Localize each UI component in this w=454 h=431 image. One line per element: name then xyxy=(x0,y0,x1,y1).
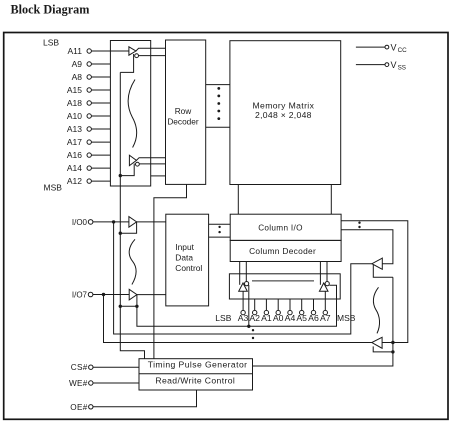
svg-text:A0: A0 xyxy=(273,313,284,323)
column address buffer block xyxy=(229,274,340,299)
svg-text:CS#: CS# xyxy=(71,363,88,372)
svg-text:Data: Data xyxy=(175,252,193,262)
wire A13 stub xyxy=(91,128,110,130)
wire A3 buffer bubble branch xyxy=(248,285,250,326)
svg-text:I/O7: I/O7 xyxy=(72,290,88,299)
wire A12 stub xyxy=(91,180,110,182)
terminal A17 xyxy=(67,137,92,147)
svg-text:A5: A5 xyxy=(296,313,307,323)
wire U4 control tap xyxy=(120,295,137,307)
column decoder block xyxy=(230,240,341,261)
svg-text:Memory Matrix: Memory Matrix xyxy=(253,101,315,111)
wire A11 to buffer xyxy=(91,50,129,52)
wire WE# input xyxy=(93,382,139,384)
divider timing/readwrite xyxy=(139,373,253,375)
wire U4 output to input data control xyxy=(137,294,166,296)
wire U2 complement output xyxy=(139,163,165,165)
junction control rail / U2 tap xyxy=(119,174,122,177)
terminal A6 xyxy=(311,299,315,315)
svg-text:A1: A1 xyxy=(261,313,272,323)
wire output enable rail xyxy=(253,277,393,366)
inverter bubble U8 xyxy=(325,282,329,286)
junction control rail / U3 tap xyxy=(119,232,122,235)
svg-text:Row: Row xyxy=(175,106,193,116)
wire A17 stub xyxy=(91,141,110,143)
terminal A13 xyxy=(67,124,92,134)
svg-text:Column I/O: Column I/O xyxy=(258,224,303,233)
wire U5 enable tap xyxy=(373,265,393,277)
svg-text:A2: A2 xyxy=(249,313,260,323)
terminal A4 xyxy=(288,299,292,315)
wire write data line to column address buffers xyxy=(137,285,337,326)
junction control rail / U4 tap xyxy=(119,305,122,308)
wire column I/O to U5 input xyxy=(341,230,393,264)
wire I/O0 input xyxy=(93,221,129,223)
buffer U7 (A3 column address buffer) xyxy=(239,283,248,291)
svg-text:Control: Control xyxy=(175,263,202,273)
terminal I/O7 xyxy=(72,290,93,299)
svg-text:Input: Input xyxy=(175,242,194,252)
terminal A3 xyxy=(241,291,245,315)
svg-text:A13: A13 xyxy=(67,124,82,134)
wire A16 stub xyxy=(91,154,110,156)
power pin VSS xyxy=(356,60,406,72)
terminal A8 xyxy=(72,72,92,82)
continuation dots (IDC bus) xyxy=(218,226,220,234)
inverter bubble U2 xyxy=(136,162,140,166)
wire U2 true output xyxy=(136,158,165,161)
svg-text:A18: A18 xyxy=(67,98,82,108)
svg-text:A17: A17 xyxy=(67,137,82,147)
terminal A0 xyxy=(276,299,280,315)
address buffer block xyxy=(110,41,150,187)
terminal A12 xyxy=(67,176,92,186)
wire U7 true output to column decoder xyxy=(239,262,241,285)
wire A10 stub xyxy=(91,115,110,117)
terminal A16 xyxy=(67,150,92,160)
label Row Decoder xyxy=(167,106,199,126)
svg-text:MSB: MSB xyxy=(44,183,63,193)
wire buffer control rail to timing pulse generator xyxy=(120,72,144,358)
wire U2 control tap xyxy=(120,164,134,176)
wire A8 stub xyxy=(91,76,110,78)
label Input Data Control xyxy=(175,242,202,273)
wire timing pulse generator to row decoder xyxy=(154,184,187,358)
junction U4 write line xyxy=(135,305,138,308)
wire U8 complement output to column decoder xyxy=(326,262,328,282)
svg-text:V: V xyxy=(391,60,397,70)
svg-text:I/O0: I/O0 xyxy=(72,218,88,227)
input data control block xyxy=(166,214,209,306)
svg-text:Read/Write Control: Read/Write Control xyxy=(155,376,235,386)
wire U1 true output xyxy=(136,48,166,51)
wire memory matrix to column I/O right xyxy=(330,185,332,215)
svg-text:LSB: LSB xyxy=(215,313,231,323)
buffer U4 (I/O7 input buffer) xyxy=(129,289,137,300)
terminal OE# xyxy=(70,403,93,412)
continuation dots (read/write lines) xyxy=(252,329,254,339)
svg-text:A11: A11 xyxy=(68,46,83,56)
svg-text:A9: A9 xyxy=(72,59,83,69)
junction enable rail / U6 input line xyxy=(391,341,394,344)
wire OE# input xyxy=(93,390,197,407)
terminal A15 xyxy=(67,85,92,95)
wire input data control to column I/O top xyxy=(209,223,231,225)
terminal A1 xyxy=(264,299,268,315)
column I/O block xyxy=(230,214,341,240)
terminal A10 xyxy=(67,111,92,121)
buffer U1 (A11 address buffer) xyxy=(129,47,136,55)
terminal A5 xyxy=(300,299,304,315)
wire I/O0 read data path xyxy=(114,222,372,334)
terminal WE# xyxy=(69,379,93,388)
terminal A11 xyxy=(68,46,92,56)
wire U1 control tap xyxy=(120,54,133,72)
svg-text:SS: SS xyxy=(398,65,406,72)
buffer U3 (I/O0 input buffer) xyxy=(129,217,137,228)
terminal I/O0 xyxy=(72,218,93,227)
junction I/O7 pin xyxy=(102,293,105,296)
svg-text:Block Diagram: Block Diagram xyxy=(11,2,90,16)
svg-text:Decoder: Decoder xyxy=(167,116,199,126)
terminal A9 xyxy=(72,59,92,69)
continuation squiggle (output buffers) xyxy=(373,287,379,333)
svg-text:A14: A14 xyxy=(67,163,82,173)
wire U1 complement output xyxy=(139,55,166,57)
buffer U2 (A12 address buffer) xyxy=(129,155,136,165)
wire CS# input xyxy=(93,366,139,368)
continuation squiggle (I/O buffers) xyxy=(129,239,136,284)
junction A3 branch xyxy=(247,325,250,328)
svg-text:2,048 × 2,048: 2,048 × 2,048 xyxy=(255,110,312,120)
svg-text:A4: A4 xyxy=(285,313,296,323)
wire U6 enable tap xyxy=(373,346,393,352)
terminal A2 xyxy=(253,299,257,315)
wire I/O7 read data path xyxy=(104,295,372,343)
svg-text:LSB: LSB xyxy=(43,38,59,48)
svg-text:A10: A10 xyxy=(67,111,82,121)
svg-text:OE#: OE# xyxy=(70,403,87,412)
terminal CS# xyxy=(71,363,93,372)
svg-text:A12: A12 xyxy=(67,176,82,186)
svg-text:A16: A16 xyxy=(67,150,82,160)
buffer U6 (I/O7 output buffer) xyxy=(372,337,382,348)
label Memory Matrix xyxy=(253,101,315,121)
wire I/O7 input xyxy=(93,294,129,296)
svg-text:A7: A7 xyxy=(320,313,331,323)
inverter bubble U1 xyxy=(135,54,139,58)
junction I/O0 pin xyxy=(112,220,115,223)
buffer U5 (I/O0 output buffer) xyxy=(372,258,382,269)
buffer U8 (A7 column address buffer) xyxy=(319,283,328,291)
wire U3 output to input data control xyxy=(137,221,166,223)
wire row decoder to memory bus top xyxy=(206,84,230,86)
svg-text:A6: A6 xyxy=(308,313,319,323)
continuation squiggle (address buffers) xyxy=(128,80,136,148)
row decoder block xyxy=(166,40,206,184)
timing pulse generator block xyxy=(139,359,253,390)
power pin VCC xyxy=(356,42,407,54)
junction enable rail / U6 tap xyxy=(391,350,394,353)
terminal A7 xyxy=(323,291,327,315)
wire U8 true output to column decoder xyxy=(319,262,321,285)
svg-text:A8: A8 xyxy=(72,72,83,82)
wire address buffer block to row decoder (bottom) xyxy=(151,175,166,177)
wire input data control to column I/O bottom xyxy=(209,236,231,238)
svg-text:Column Decoder: Column Decoder xyxy=(249,246,316,256)
svg-text:A15: A15 xyxy=(67,85,82,95)
continuation bar (column address buffers) xyxy=(252,280,314,282)
memory matrix block xyxy=(230,41,341,185)
svg-text:WE#: WE# xyxy=(69,379,88,388)
wire memory matrix to column I/O left xyxy=(237,185,239,215)
wire U7 complement output to column decoder xyxy=(245,262,247,282)
wire A18 stub xyxy=(91,102,110,104)
wire column I/O to U6 input xyxy=(341,221,408,343)
svg-text:A3: A3 xyxy=(238,313,249,323)
svg-text:Timing Pulse Generator: Timing Pulse Generator xyxy=(148,359,248,369)
svg-text:MSB: MSB xyxy=(337,313,356,323)
wire row decoder to memory bus bottom xyxy=(206,126,230,128)
wire U3 control tap xyxy=(120,222,136,233)
svg-text:V: V xyxy=(391,42,397,52)
wire A9 stub xyxy=(91,63,110,65)
inverter bubble U7 xyxy=(245,282,249,286)
terminal A14 xyxy=(67,163,92,173)
wire A14 stub xyxy=(91,167,110,169)
terminal A18 xyxy=(67,98,92,108)
svg-text:CC: CC xyxy=(398,47,408,54)
continuation dots (column I/O bus) xyxy=(358,222,360,229)
bus continuation dots xyxy=(217,87,220,120)
wire A15 stub xyxy=(91,89,110,91)
